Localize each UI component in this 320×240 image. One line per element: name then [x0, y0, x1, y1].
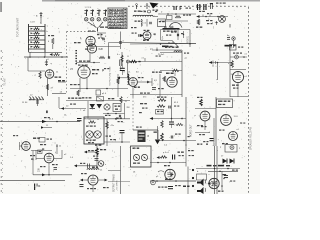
box c1 mid: [167, 16, 173, 20]
label row y72 c2: [152, 72, 162, 73]
coil above V8: [87, 169, 99, 170]
resistor x162 dark: [161, 133, 164, 141]
wire y170 b4 r: [108, 170, 121, 172]
IF transformer ticks: [75, 50, 77, 64]
coil L2: [128, 74, 129, 84]
scan noise fleck 52: [28, 116, 30, 118]
label above V16: [144, 30, 150, 31]
label 2 d4: [239, 148, 241, 150]
diode D5 dark: [223, 159, 228, 164]
speaker glyph 1: [197, 179, 206, 187]
label x133 y172: [133, 172, 136, 174]
label 47e: [143, 97, 147, 99]
label c3 left2: [142, 108, 148, 109]
label h3: [153, 10, 159, 11]
label under switch: [88, 31, 95, 32]
wire y174 a4: [33, 174, 72, 176]
scan noise fleck 41: [66, 134, 68, 136]
svg-text:TO TUNER UNIT: TO TUNER UNIT: [17, 17, 20, 37]
shield dashed x133: [132, 97, 134, 130]
scan noise fleck 6: [25, 115, 27, 117]
cap pair x81 y185: [80, 185, 84, 187]
wire right V10: [54, 158, 62, 160]
label a4: [46, 59, 49, 61]
box bottom line c4: [131, 166, 152, 168]
diode D3 dark: [155, 140, 160, 145]
junction y88 a: [86, 88, 88, 90]
tuner dashed border top: [67, 31, 97, 33]
left margin dashed line: [2, 52, 4, 193]
switch socket circle 1: [85, 18, 88, 21]
cap x120 b3: [119, 115, 120, 117]
junction y181 b: [175, 180, 177, 182]
junction y57 b: [44, 56, 46, 58]
marks y148 a4: [42, 149, 44, 150]
arrow right V8: [105, 179, 108, 182]
tube chart row 5: [109, 20, 127, 24]
svg-text:11 54: 11 54: [22, 102, 28, 104]
junction y168 b: [227, 168, 229, 170]
T2 bottom text: [86, 140, 96, 141]
label +1e: [135, 21, 141, 22]
scan noise fleck 4: [67, 68, 69, 69]
flag arrowhead dark: [150, 3, 159, 9]
scan noise fleck 10: [66, 166, 69, 168]
boundary line y180: [0, 180, 65, 182]
label c3 left3: [139, 112, 142, 113]
label y11 extra2: [155, 11, 157, 12]
arrow y82: [147, 81, 150, 84]
small circle c1: [148, 10, 151, 13]
resistor R52 c3: [161, 121, 163, 128]
scan noise fleck 21: [215, 65, 218, 67]
pix cap pair: [120, 60, 122, 71]
svg-text:e p 4: e p 4: [104, 38, 106, 44]
scan noise fleck 25: [95, 167, 97, 169]
pin symbol 1: [136, 4, 138, 9]
label e2 a4: [64, 154, 67, 156]
wire y62 arrow d2: [209, 62, 230, 64]
junction x178 y47: [177, 46, 179, 48]
wire y96 d2: [230, 96, 248, 98]
tick x145: [144, 58, 146, 62]
coil y52 c2: [174, 51, 181, 52]
tube V1 right smudge: [55, 77, 62, 78]
scan noise fleck 50: [137, 75, 139, 77]
scan noise fleck 15: [80, 136, 82, 138]
label x197 y145: [197, 144, 202, 145]
cap bold y187 c4: [168, 187, 173, 189]
tick y16 a: [203, 15, 210, 17]
wire x28 down: [27, 57, 29, 71]
vline x122 b3: [121, 133, 123, 142]
IF label row: [79, 61, 90, 62]
label M d2: [231, 48, 233, 50]
wire y150 a4: [31, 150, 52, 152]
arrow y78 pix: [117, 77, 120, 80]
junction y118 a: [171, 118, 173, 120]
resistor R41 b3: [120, 97, 122, 104]
flyback winding B: [204, 4, 206, 10]
label above R50: [157, 97, 166, 98]
tube V17 sync sep: [129, 78, 138, 87]
switch arm wires: [88, 22, 103, 32]
wire y118 c3: [152, 118, 186, 120]
label e1p d2: [245, 54, 248, 56]
tube V5 sync amp: [167, 77, 177, 87]
arrow left y118: [150, 117, 154, 120]
vline x188 c4: [187, 167, 189, 195]
svg-text:6U8: 6U8: [99, 49, 104, 51]
dark cluster x184 y186: [183, 186, 190, 188]
label x204 y142: [203, 141, 209, 142]
wire y162 c4: [150, 162, 186, 164]
label 4|1: [154, 80, 158, 82]
coil vert c1: [141, 20, 142, 27]
label row y47 c2: [165, 47, 178, 48]
junction y14 a: [167, 13, 169, 15]
label 11 d2: [212, 66, 215, 68]
label b d4: [197, 171, 199, 173]
junction y50: [156, 49, 158, 51]
scan noise fleck 29: [145, 49, 147, 51]
tube V14 damper: [165, 169, 175, 179]
label x206 y145: [206, 144, 208, 145]
tick x152 c2: [151, 78, 153, 86]
box mid b3 inner: [115, 106, 121, 107]
resistor R3 mixer: [52, 38, 54, 44]
T2 socket 1: [86, 131, 93, 138]
pix dot: [138, 61, 140, 63]
vline x147 c1: [146, 19, 148, 27]
scan noise specks: [8, 3, 249, 192]
pix label f1: [127, 56, 130, 58]
resistor R8: [46, 84, 48, 90]
resistor R53 c3: [176, 123, 183, 125]
scan noise fleck 67: [112, 156, 114, 158]
tube V4 left drop: [79, 78, 81, 92]
label y10 extra: [141, 11, 147, 12]
wire y21 c1: [160, 20, 188, 22]
hv inner vline: [177, 30, 179, 40]
socket small c4: [151, 180, 156, 185]
vline x36 a4: [35, 150, 37, 160]
svg-text:p 4 e1: p 4 e1: [163, 152, 170, 154]
junction y162 a: [157, 162, 159, 164]
hv diag wire: [172, 41, 178, 47]
label e b4: [105, 164, 107, 166]
switch position labels: [85, 7, 92, 9]
switch arm label: [91, 25, 93, 27]
label p4 c1: [150, 49, 153, 51]
resistor in T2: [89, 121, 96, 123]
marks right V9 row2: [40, 144, 46, 145]
vline x93 below V8: [92, 185, 94, 192]
rotated text output b: [117, 180, 119, 190]
socket small d2: [235, 55, 239, 59]
cap C25 a3: [36, 98, 39, 106]
vline x124 b3: [124, 103, 126, 119]
junction y62 d2: [217, 62, 219, 64]
cluster R11: [121, 52, 123, 64]
scan noise fleck 48: [58, 31, 60, 33]
box d4 top: [225, 145, 237, 153]
scan noise fleck 54: [93, 179, 95, 181]
scan noise fleck 40: [94, 151, 95, 153]
transformer T3 box: [131, 146, 152, 167]
switch wafer S1-4: [103, 10, 107, 17]
label y127 c3: [136, 127, 142, 128]
scan noise fleck 28: [147, 81, 148, 83]
arrow y157 c4: [157, 156, 160, 159]
resistor R11: [121, 55, 123, 62]
T2 bottom text2: [88, 142, 94, 143]
bus x217 d4: [216, 146, 218, 194]
junction y113 a: [107, 113, 109, 115]
junction y61 a: [139, 61, 141, 63]
label below V7 a: [232, 85, 239, 86]
thin pin pair: [210, 3, 213, 9]
label e1 c2: [142, 58, 145, 60]
scan noise fleck 64: [28, 50, 29, 52]
label row y103 b3: [70, 104, 76, 105]
label row y97 b3 ext: [82, 97, 91, 98]
label e2: [30, 95, 33, 97]
ticks y62 d2: [213, 61, 216, 65]
wire y93: [52, 93, 66, 95]
label e c4: [190, 169, 192, 171]
bold pin pair: [174, 6, 176, 10]
label right x184: [184, 53, 189, 54]
arrow into V16: [141, 34, 144, 37]
bus x216 d3: [215, 97, 217, 146]
resistor R33: [163, 76, 165, 82]
svg-text:M: M: [231, 48, 233, 50]
label below V16: [143, 40, 149, 41]
osc marks right a: [97, 34, 103, 35]
tuner label C: [30, 22, 35, 24]
scan noise fleck 36: [155, 94, 157, 96]
vline x97 b4: [96, 146, 98, 167]
label x188 y155: [189, 155, 195, 156]
wire y100 b3: [66, 100, 130, 102]
tick left V9: [20, 142, 22, 150]
label x131 y33: [132, 33, 137, 34]
wire y118 b3: [84, 118, 130, 120]
label x174 y106: [174, 106, 179, 107]
label below V7 b: [233, 88, 239, 89]
label 12AX7: [33, 138, 40, 139]
tuner wiper arrow 5: [31, 46, 34, 48]
wire y56 d2: [230, 56, 247, 58]
junction y171 a: [219, 171, 221, 173]
wire y52 c2: [160, 51, 182, 53]
scan noise fleck 47: [143, 9, 146, 11]
capacitor C31 bold: [169, 119, 174, 129]
label B c3: [148, 136, 150, 138]
capacitor c1a: [150, 22, 151, 24]
socket blob b4: [98, 161, 104, 167]
wire y70 c2: [160, 70, 182, 72]
cluster x38 y151: [38, 150, 43, 154]
label 11 54: [22, 102, 28, 104]
wire x90 down: [89, 53, 91, 62]
rotated text output a: [113, 174, 116, 192]
vline x238 down d2: [237, 83, 239, 97]
box top d2: [230, 45, 237, 51]
scan noise fleck 5: [18, 126, 20, 128]
tuner wire y52: [29, 51, 63, 53]
cap x89 b4: [88, 164, 90, 169]
cap x96 y158 b4: [95, 159, 99, 161]
tuner coil L1a: [34, 28, 40, 30]
socket circle d1: [219, 16, 226, 23]
label x30 y99: [29, 99, 35, 100]
wire y165 b4: [77, 165, 97, 167]
scan noise fleck 14: [80, 38, 82, 40]
rotated label osc col: [104, 38, 106, 44]
label below zig d1: [196, 27, 202, 28]
label p4e1 c4: [163, 152, 170, 154]
tuner coil L1b: [34, 32, 40, 34]
wire y108 a3: [59, 108, 86, 110]
rotated label TO TUNER UNIT: [17, 17, 20, 37]
hv inner marks2: [171, 32, 177, 33]
label row y28 c1: [163, 31, 177, 32]
dark label row d1: [225, 45, 236, 47]
resistor R50 c3: [158, 99, 166, 102]
tube V1 RF amp: [45, 70, 54, 79]
label x96 y146: [95, 145, 101, 146]
marks y88 c2: [158, 88, 164, 89]
pilot lamp d4: [230, 146, 234, 150]
scan noise fleck 22: [54, 142, 56, 144]
bus arrow dark: [42, 120, 47, 123]
label e4 b3: [83, 110, 86, 112]
arrow y174: [42, 173, 46, 176]
marks y55 c2: [156, 56, 161, 57]
gray line y181 right: [108, 181, 130, 183]
arrow y62 d2: [209, 61, 212, 64]
wire y113 b3: [103, 113, 125, 115]
antenna terminal: [40, 12, 43, 18]
label 11 a4: [46, 125, 49, 127]
T3 bottom text: [133, 163, 140, 164]
svg-text:1 2 3 4: 1 2 3 4: [85, 7, 92, 9]
main dashed border right: [248, 7, 250, 193]
osc wire y46: [86, 46, 120, 48]
label row y11 a: [134, 11, 141, 12]
wire y152 b4: [87, 151, 95, 153]
capacitor C4: [45, 60, 48, 66]
marks below y180: [34, 184, 40, 191]
long wire y44: [130, 43, 196, 45]
tube V13 rect: [229, 132, 238, 141]
resistor R51 c3: [157, 105, 165, 108]
resistor R70 c4: [160, 156, 167, 158]
bus x214 d3: [213, 118, 215, 146]
scan noise fleck 43: [122, 121, 124, 123]
label above V14: [164, 165, 170, 166]
tube V15 rectifier: [209, 178, 219, 188]
label x200 y135: [199, 134, 205, 135]
label x70 y158: [70, 157, 74, 159]
vline x230 d2: [229, 44, 231, 97]
ladder pin 7: [47, 26, 49, 28]
label 11 x59: [59, 146, 62, 148]
tick x157: [156, 48, 158, 51]
resistor R10: [99, 56, 105, 58]
label 10 4e1: [158, 54, 165, 56]
label 64 c2: [136, 72, 139, 74]
label x178 y152: [178, 152, 184, 153]
junction y44 a: [160, 43, 162, 45]
vline x171 c3: [171, 97, 173, 119]
hv inner marks3: [181, 33, 183, 34]
capacitor C7: [119, 42, 122, 43]
switch wafer S1-1: [84, 10, 88, 17]
dark cluster y166 b4: [92, 167, 98, 168]
label 17 d4: [221, 156, 224, 158]
tuner wiper arrow 1: [31, 28, 34, 30]
junction y118 b: [181, 118, 183, 120]
label x82 y174: [81, 173, 87, 174]
resistor R7: [39, 72, 41, 79]
wire y94 c2: [130, 94, 182, 96]
label v11 below: [201, 126, 207, 127]
scan noise fleck 18: [180, 39, 182, 40]
label 11 6: [234, 116, 239, 118]
wire left V8: [83, 179, 88, 181]
label 41 c1: [144, 12, 147, 14]
box mid b3: [113, 104, 121, 112]
F marks: [180, 6, 182, 10]
T3 top text: [133, 148, 140, 149]
junction y16 b: [217, 16, 219, 18]
tuner wiper arrow 4: [31, 41, 34, 43]
diode D6 dark: [230, 159, 235, 164]
label C4: [51, 63, 53, 65]
scan noise fleck 61: [101, 20, 103, 22]
scan noise fleck 57: [102, 70, 103, 72]
tube chart row 1: [109, 8, 127, 12]
coil L3 ifwave: [133, 15, 153, 16]
tube V8 audio output: [88, 175, 98, 185]
scan noise fleck 26: [208, 173, 210, 175]
wire y50 c2: [152, 49, 182, 51]
label x220 y130: [219, 130, 225, 131]
scan noise fleck 66: [88, 118, 90, 120]
box line y130 c3: [133, 129, 158, 131]
label x224 y144: [222, 143, 228, 144]
label e1 x162: [162, 78, 165, 80]
terminal dot 3: [192, 185, 194, 187]
bus x182: [181, 50, 183, 97]
antenna feed wire: [40, 18, 42, 24]
label j b4: [113, 152, 115, 154]
tube chart box: [108, 8, 127, 29]
label R3: [48, 41, 50, 43]
label above R55: [197, 97, 203, 98]
box AD text: [157, 111, 163, 112]
label 41.5: [174, 102, 179, 104]
label y186 c4 a: [158, 187, 167, 188]
resistor R5: [54, 53, 60, 55]
top labels d1: [216, 3, 226, 4]
label p d4: [220, 147, 222, 149]
label e1p d1: [199, 11, 205, 12]
resistor R31 zig: [130, 60, 137, 63]
